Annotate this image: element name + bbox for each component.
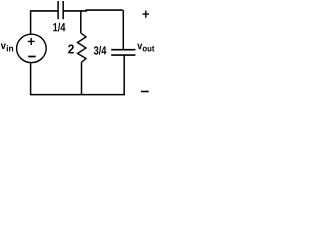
output polarity plus [143, 11, 150, 18]
voltage source v_in circle [17, 34, 47, 62]
wire: top segment from C1 right plate to top-right corner (1px step up at x=86) [64, 9, 123, 12]
capacitor C2 plates (shunt element, value 3/4) [111, 50, 135, 55]
wire: top left segment from source corner to C1 left plate [30, 10, 58, 12]
resistor R zigzag (value 2) [78, 33, 87, 62]
capacitor C1 plates (series element, value 1/4) [58, 1, 63, 19]
value label 3/4 [94, 46, 107, 55]
plus sign inside source [28, 38, 35, 45]
value label 2 [68, 45, 74, 54]
wire: right vertical upper (corner down to C2 top plate) [122, 10, 124, 49]
value label 1/4 [53, 23, 65, 32]
resistor top lead [80, 11, 82, 33]
output polarity minus [141, 91, 149, 93]
minus sign inside source [28, 56, 36, 58]
wire: right vertical lower (C2 bottom plate to bottom wire) [123, 55, 125, 95]
label v_in 'in' subscript [7, 45, 13, 51]
label v_in 'v' [1, 43, 6, 49]
wire: left vertical lower (source circle bottom to bottom wire) [30, 63, 32, 95]
wire: left vertical upper (top wire down to source circle top) [30, 11, 32, 35]
resistor bottom lead [81, 62, 83, 95]
wire: bottom horizontal [30, 94, 125, 96]
label v_out 'v' [137, 44, 142, 50]
label v_out 'out' subscript [143, 46, 155, 52]
